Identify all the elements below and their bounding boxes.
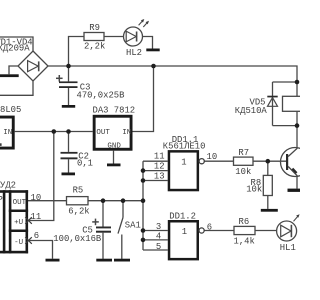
- svg-text:0,1: 0,1: [77, 158, 93, 168]
- svg-text:IN: IN: [3, 129, 12, 137]
- IC box DD1.1: [169, 151, 198, 190]
- svg-text:470,0x25В: 470,0x25В: [77, 91, 125, 101]
- wire DD1.1 pin 11: [143, 160, 168, 162]
- wire DA3 GND: [113, 151, 115, 164]
- diode inside bridge: [28, 61, 39, 72]
- wire R8 drop: [267, 161, 269, 175]
- X mark pin 11: [25, 217, 32, 244]
- C3 plates: [59, 81, 78, 83]
- wire R5 to net: [88, 200, 143, 202]
- C5 plates: [96, 227, 111, 229]
- wire R9 to HL2: [104, 36, 124, 38]
- svg-text:13: 13: [154, 171, 165, 181]
- svg-text:OUT: OUT: [13, 199, 27, 207]
- ground bar C5: [96, 259, 112, 262]
- resistor R5: [67, 197, 89, 205]
- wire bridge left corner to AC terminal bar: [9, 66, 18, 74]
- ground bar C3: [62, 105, 75, 108]
- wire DD1.2 pin 3: [143, 230, 168, 232]
- svg-text:10: 10: [31, 193, 42, 203]
- svg-text:1,4k: 1,4k: [234, 236, 255, 246]
- resistor R8: [263, 175, 272, 195]
- svg-text:R7: R7: [238, 148, 249, 158]
- wire top-left feed to bridge top: [0, 37, 33, 51]
- wire DA3 OUT to 78L05 IN: [15, 131, 93, 133]
- svg-text:КД510А: КД510А: [235, 106, 268, 116]
- wire DD1.1 pin 13: [143, 180, 168, 182]
- emitter: [288, 167, 297, 189]
- capacitor C5 drop: [102, 201, 104, 227]
- bridge rectifier VD1-VD4 diamond: [18, 51, 48, 81]
- svg-text:-U: -U: [14, 239, 23, 247]
- svg-text:SA1: SA1: [125, 220, 141, 230]
- IC box DA3 7812: [94, 116, 131, 149]
- ground bar AC left: [0, 74, 19, 77]
- transistor VT1 circle: [281, 148, 310, 177]
- svg-text:R9: R9: [89, 23, 100, 33]
- wire R9 branch up: [69, 37, 85, 67]
- wire op-amp pin 6 -U to ground: [28, 241, 53, 259]
- svg-text:Р: Р: [0, 195, 3, 205]
- svg-text:5: 5: [156, 242, 161, 252]
- svg-text:2,2k: 2,2k: [84, 42, 105, 52]
- HL2 arrowheads: [141, 19, 144, 23]
- LED HL1: [277, 221, 297, 241]
- ground bar emitter: [288, 189, 301, 192]
- IC box DD1.2: [169, 221, 198, 259]
- svg-text:12: 12: [154, 162, 165, 172]
- svg-text:4: 4: [156, 232, 161, 242]
- wire DD1.1 pin 12: [143, 170, 168, 172]
- svg-text:HL1: HL1: [280, 243, 296, 253]
- switch SA1: [122, 201, 124, 218]
- svg-text:11: 11: [154, 152, 165, 162]
- svg-text:6: 6: [34, 231, 39, 241]
- svg-text:IN: IN: [122, 129, 131, 137]
- wire DD1.2 pin 5: [143, 249, 168, 251]
- HL1 arrowhead partial: [296, 214, 299, 218]
- svg-text:OUT: OUT: [96, 129, 110, 137]
- op-amp box lines: [0, 190, 28, 253]
- resistor R7: [234, 157, 254, 165]
- plus sign C5: [92, 221, 99, 223]
- svg-text:10: 10: [207, 152, 218, 162]
- LED HL2: [124, 27, 143, 46]
- capacitor C2 drop: [68, 132, 70, 152]
- emitter arrowhead: [292, 168, 298, 174]
- svg-text:10k: 10k: [235, 167, 251, 177]
- capacitor C3 drop: [68, 66, 70, 81]
- ground bar R8: [261, 209, 278, 212]
- svg-text:10k: 10k: [246, 185, 262, 195]
- svg-text:R5: R5: [73, 186, 84, 196]
- relay coil box: [283, 96, 303, 111]
- bubble DD1.2 output: [199, 228, 204, 233]
- bubble DD1.1 output: [199, 159, 204, 164]
- IC box 78L05: [0, 117, 13, 148]
- svg-text:1: 1: [181, 157, 186, 167]
- svg-text:R6: R6: [239, 217, 250, 227]
- ground bar HL2: [146, 49, 159, 52]
- svg-text:GND: GND: [107, 142, 121, 150]
- text fragment cut in 78L05 box: [0, 143, 2, 146]
- ground bar DA3 GND: [107, 164, 121, 167]
- ground bar SA1: [114, 259, 130, 262]
- svg-text:11: 11: [31, 212, 42, 222]
- wire R6 to HL1: [255, 230, 277, 232]
- wire bridge bottom corner to left edge: [0, 81, 33, 95]
- svg-text:1: 1: [182, 227, 187, 237]
- ground bar op-amp pin6: [46, 259, 60, 262]
- svg-text:DD1.2: DD1.2: [169, 211, 196, 221]
- svg-text:6,2k: 6,2k: [68, 207, 89, 217]
- resistor R6: [234, 226, 255, 234]
- diode VD5: [268, 98, 278, 107]
- wire DD1.2 pin 4: [143, 239, 168, 241]
- wire DD1.2 out to R6: [204, 230, 234, 232]
- wire R7 to base: [253, 160, 286, 162]
- svg-text:КД209А: КД209А: [0, 43, 30, 53]
- svg-text:8L05: 8L05: [0, 105, 21, 115]
- svg-text:6: 6: [207, 222, 212, 232]
- resistor R9: [84, 33, 104, 41]
- svg-text:3: 3: [156, 222, 161, 232]
- svg-text:+U: +U: [14, 219, 23, 227]
- svg-text:К561ЛЕ10: К561ЛЕ10: [163, 141, 206, 151]
- plus sign C3: [56, 77, 63, 79]
- wire DA3 IN drop: [133, 66, 154, 132]
- wire HL2 to ground: [143, 37, 153, 49]
- wire collector: [288, 126, 297, 157]
- VD5 branch: [273, 81, 298, 83]
- net vertical to gate inputs: [142, 161, 144, 250]
- C2 plates: [61, 152, 78, 154]
- svg-text:HL2: HL2: [126, 48, 142, 58]
- wire DD1.1 out to R7: [204, 160, 233, 162]
- svg-text:DA3 7812: DA3 7812: [93, 106, 136, 116]
- wire op-amp pin 11 +U: [28, 132, 54, 221]
- wire op-amp pin 10 OUT to R5: [28, 200, 67, 202]
- transistor base bar: [286, 154, 288, 170]
- svg-text:УД2: УД2: [0, 180, 16, 190]
- wire main +12V bus: [48, 66, 297, 82]
- relay coil vertical: [296, 82, 298, 126]
- svg-text:100,0x16В: 100,0x16В: [53, 234, 101, 244]
- ground bar C2: [62, 173, 76, 176]
- cathode bar VD5: [267, 96, 277, 98]
